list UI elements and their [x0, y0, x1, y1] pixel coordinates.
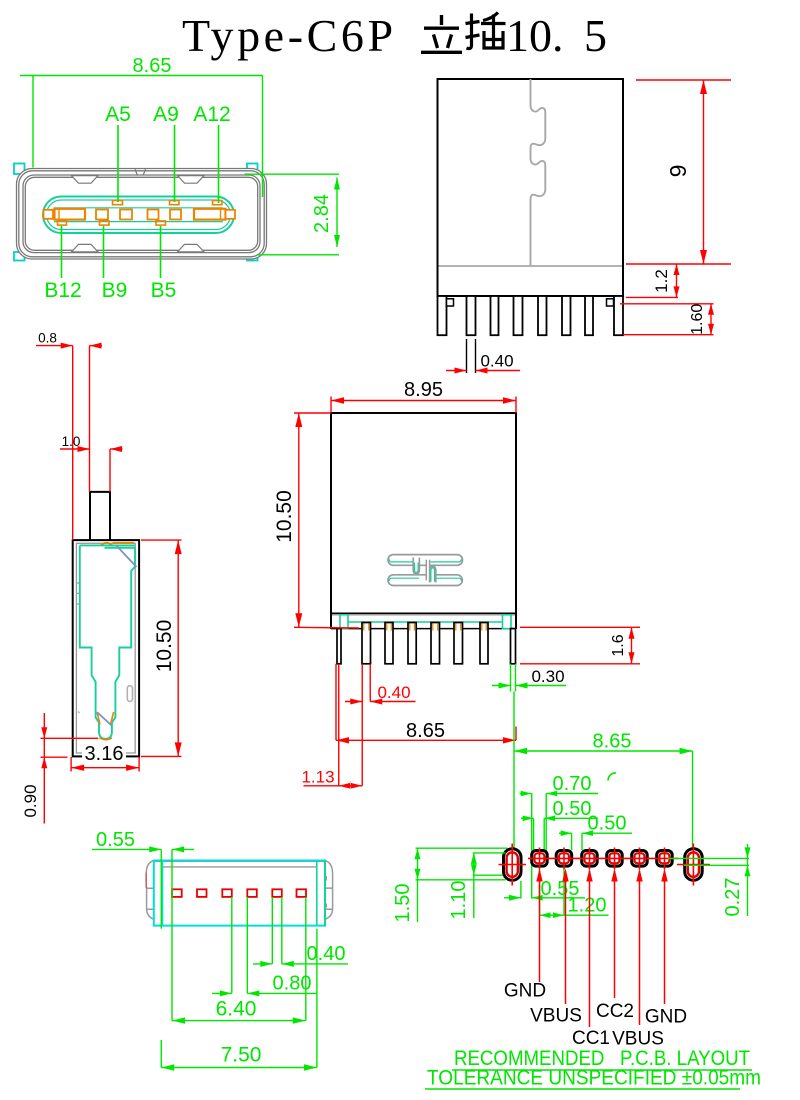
bottom view body rect (cyan) [154, 861, 325, 926]
svg-text:1.0: 1.0 [62, 434, 81, 449]
front view long pin dividers (orange) [59, 210, 221, 220]
side view pin 1 [467, 296, 476, 335]
svg-text:0.90: 0.90 [21, 784, 40, 817]
dimension 8.65 middle (red) [336, 664, 516, 741]
middle view pin 4 [408, 623, 416, 664]
front view tongue outer oval [43, 197, 234, 234]
front view shell corner tabs (teal) [14, 164, 258, 261]
PROFILE-GROUP [21, 331, 182, 824]
dimension 0.55 pcb (green) [504, 881, 585, 899]
middle view pin 7 [480, 623, 488, 664]
title CJK glyph 立 [421, 15, 462, 52]
svg-text:9: 9 [665, 165, 691, 178]
latch top bar (gray) [388, 555, 463, 566]
svg-text:1.2: 1.2 [652, 269, 671, 293]
svg-text:0.8: 0.8 [38, 331, 57, 346]
profile contact top orange line [113, 542, 135, 544]
bottom view inner vertical right (teal) [316, 861, 318, 926]
dimension 1.2 (red) [626, 264, 678, 297]
svg-text:1.6: 1.6 [610, 634, 627, 656]
svg-text:0.40: 0.40 [377, 683, 410, 702]
dimension 1.50 (green) [416, 848, 508, 922]
dimension 1.0 (red line, black text) [60, 449, 123, 492]
profile tip orange marks [97, 713, 100, 725]
pin label GND 1 with leader [539, 871, 541, 982]
svg-text:0.27: 0.27 [722, 878, 744, 917]
svg-text:1.60: 1.60 [689, 304, 706, 335]
svg-text:7.50: 7.50 [221, 1044, 262, 1067]
latch right channel (gray, opens into bottom bar) [430, 567, 436, 583]
side view pin 2 [491, 296, 499, 335]
side view right leg notch [607, 299, 614, 306]
svg-text:B5: B5 [151, 279, 177, 302]
latch teal inner lines [389, 559, 462, 582]
FRONTVIEW-GROUP [14, 55, 340, 302]
side view left leg notch [447, 299, 454, 306]
pcb small pad 1 [532, 851, 548, 867]
side view pin 5 [562, 296, 571, 335]
dimension 0.70 (green) [520, 794, 599, 899]
pcb small pad 3 [582, 851, 598, 867]
bottom view pad 2 (red) [197, 889, 207, 897]
front view contact pins (orange) [44, 209, 236, 220]
pcb small pads axis crosshair (red) [528, 857, 678, 859]
svg-text:B12: B12 [44, 279, 81, 302]
bottom view right cap red ticks [325, 876, 327, 908]
dimension 0.40 middle (red) [345, 664, 416, 702]
bottom view pad 4 (red) [247, 889, 256, 897]
dimension 8.65 top (green) [20, 76, 263, 198]
dimension 0.40 (red, side view) [467, 339, 476, 373]
profile body outline [73, 540, 139, 756]
pcb small pad 4 [607, 851, 623, 867]
svg-text:A12: A12 [193, 103, 230, 126]
svg-text:0.50: 0.50 [588, 813, 627, 835]
svg-text:A5: A5 [105, 103, 131, 126]
pin label VBUS 2 with leader [639, 871, 641, 1025]
svg-text:10.: 10. [506, 10, 564, 61]
profile side slot (gray) [127, 686, 132, 702]
dimension 0.27 (green) [668, 844, 749, 916]
dimension 3.16 (red) [71, 757, 139, 772]
pcb small pad 6 [657, 851, 673, 867]
pin label GND 2 with leader [664, 871, 666, 1004]
middle view pin 2 [362, 623, 371, 664]
title CJK glyph 插 [466, 13, 506, 49]
front view bottom notch left [72, 244, 99, 252]
svg-text:10.50: 10.50 [273, 490, 296, 543]
profile contact top orange arc [101, 543, 113, 546]
dimension 0.30 (green lines, black text) [492, 664, 566, 692]
svg-text:6.40: 6.40 [216, 998, 257, 1021]
side view right leg [614, 296, 623, 335]
bottom view pad 5 (red) [272, 889, 282, 897]
middle view flange teal line [348, 621, 503, 623]
dimension 1.10 (green) [473, 853, 506, 918]
pcb large pad left [504, 849, 522, 881]
middle view pin 6 [454, 623, 463, 664]
profile blue diagonal bottom [97, 712, 112, 725]
dimension 0.50 gap (green) [559, 833, 632, 850]
front view outer shell (4 rounded outlines) [17, 169, 267, 260]
svg-text:8.95: 8.95 [404, 379, 443, 401]
bottom view left cap (gray arcs) [146, 861, 154, 920]
front view bottom notch right [178, 244, 205, 252]
middle view flange teal square left [340, 615, 348, 629]
side view inner shelf line (gray) [439, 265, 623, 267]
middle view pin 1 [337, 629, 341, 664]
dimension 10.50 middle (red) [294, 413, 359, 628]
front view top seam mark [135, 169, 146, 175]
svg-text:1.50: 1.50 [392, 884, 414, 923]
dimension 8.65 pcb (green) [514, 751, 693, 849]
pcb small pad 5 [632, 851, 648, 867]
front view tongue edge lines [54, 208, 223, 222]
side view left leg [438, 296, 447, 335]
dimension 0.80 bottom (green) [212, 897, 317, 993]
front view B-row contact marks (orange) [58, 221, 166, 225]
svg-text:8.65: 8.65 [133, 55, 172, 77]
pcb large pad right [685, 849, 703, 881]
svg-text:0.70: 0.70 [553, 773, 592, 795]
svg-text:CC2: CC2 [596, 1001, 634, 1022]
svg-text:0.40: 0.40 [480, 352, 513, 371]
profile housing ledges (gray) [76, 583, 80, 604]
dimension 1.20 (green) [540, 870, 609, 916]
dimension 0.50 pad inner (green) [521, 818, 598, 851]
bottom view inner vertical left (cyan) [162, 861, 164, 926]
dimension 2.84 right (green) [245, 174, 340, 255]
green link line to pcb view [513, 692, 515, 849]
svg-text:2.84: 2.84 [311, 194, 333, 233]
pin label CC2 with leader [614, 871, 616, 998]
PCB-GROUP [392, 731, 761, 1090]
bottom view pad 1 (red) [172, 889, 182, 897]
pin label CC1 with leader [589, 871, 591, 1027]
middle view flange sides [331, 614, 516, 630]
profile blue diagonal top [117, 546, 137, 567]
latch bottom bar (gray) [388, 575, 462, 586]
side view body outline [438, 79, 624, 296]
svg-text:0.40: 0.40 [307, 943, 346, 965]
profile housing dot (gray) [78, 712, 80, 714]
svg-text:0.30: 0.30 [531, 667, 564, 686]
svg-text:10.50: 10.50 [153, 620, 176, 673]
svg-text:CC1: CC1 [572, 1028, 610, 1049]
front view tongue inner oval [47, 200, 231, 230]
svg-text:1.20: 1.20 [568, 895, 607, 917]
pcb small pad 2 [556, 851, 572, 867]
MIDDLE-GROUP [273, 379, 640, 848]
dimension 0.40 bottom (green) [253, 897, 348, 964]
svg-text:0.50: 0.50 [553, 798, 592, 820]
dimension 10.50 left view (red) [141, 540, 182, 756]
dimension 1.6 (red) [520, 627, 640, 664]
svg-text:Type-C6P: Type-C6P [182, 10, 397, 61]
middle view pin 5 [431, 623, 440, 664]
side view pin 4 [538, 296, 547, 335]
svg-text:1.10: 1.10 [448, 881, 470, 920]
dimension 1.60 (red) [620, 304, 714, 335]
front view top notch left [72, 176, 99, 184]
TITLE-GROUP [182, 10, 607, 61]
side view pin 6 [585, 296, 593, 335]
dimension 0.55 bottom (green) [92, 849, 194, 1020]
svg-text:3.16: 3.16 [85, 743, 124, 765]
middle view pin 8 [511, 629, 516, 664]
front view top notch right [178, 176, 205, 184]
latch center bar (gray) [426, 560, 429, 580]
latch left channel (gray, opens into top bar) [413, 558, 419, 574]
svg-text:5: 5 [584, 10, 607, 61]
dimension 0.90 (red) [41, 713, 99, 824]
profile top tab [90, 492, 110, 540]
stray green arc mark [608, 773, 616, 781]
pcb small pad vertical crosshairs (red) [540, 848, 665, 870]
svg-text:0.55: 0.55 [96, 829, 135, 851]
middle view pin top orange marks [364, 624, 486, 631]
svg-text:VBUS: VBUS [530, 1006, 582, 1027]
dimension 1.13 (red) [304, 664, 363, 786]
bottom view pad 3 (red) [222, 889, 232, 897]
SIDEVIEW-GROUP [438, 79, 732, 374]
svg-text:A9: A9 [153, 103, 179, 126]
dimension 6.40 (green) [172, 897, 306, 1021]
bottom view left cap red arc [145, 873, 147, 888]
pcb large pad crosshairs (red) [499, 844, 711, 886]
front view A-row contact marks (orange) [113, 201, 223, 205]
svg-text:8.65: 8.65 [593, 731, 632, 753]
svg-text:GND: GND [504, 981, 546, 1002]
svg-text:8.65: 8.65 [406, 720, 445, 742]
side view pin 3 [514, 296, 523, 335]
dimension 0.8 (red line, black text) [36, 346, 102, 540]
middle view pin 3 [385, 623, 393, 664]
profile inner housing (gray) [76, 543, 135, 753]
pin label VBUS 1 with leader [565, 871, 567, 1004]
BOTTOM-GROUP [92, 829, 348, 1071]
side view break centerline (gray) [531, 79, 546, 266]
dimension 9 (red) [626, 80, 731, 264]
middle view flange top line (gray) [332, 614, 515, 616]
bottom view pad 6 (red) [297, 889, 307, 897]
bottom view right cap (gray arcs) [325, 861, 332, 920]
svg-text:GND: GND [645, 1007, 687, 1028]
bottom view body right edge (teal) [324, 860, 326, 927]
dimension 8.95 (red) [331, 397, 516, 414]
svg-text:1.13: 1.13 [301, 768, 334, 787]
bottom view shell top gray lines [154, 861, 325, 867]
dimension 7.50 (green) [161, 929, 317, 1068]
svg-text:TOLERANCE UNSPECIFIED ±0.05mm: TOLERANCE UNSPECIFIED ±0.05mm [427, 1067, 761, 1090]
middle view flange bottom line [331, 628, 516, 630]
middle view flange teal square right [503, 615, 512, 629]
svg-text:B9: B9 [102, 279, 128, 302]
profile contact outline (teal) [80, 545, 135, 738]
middle view body outline [331, 413, 516, 614]
